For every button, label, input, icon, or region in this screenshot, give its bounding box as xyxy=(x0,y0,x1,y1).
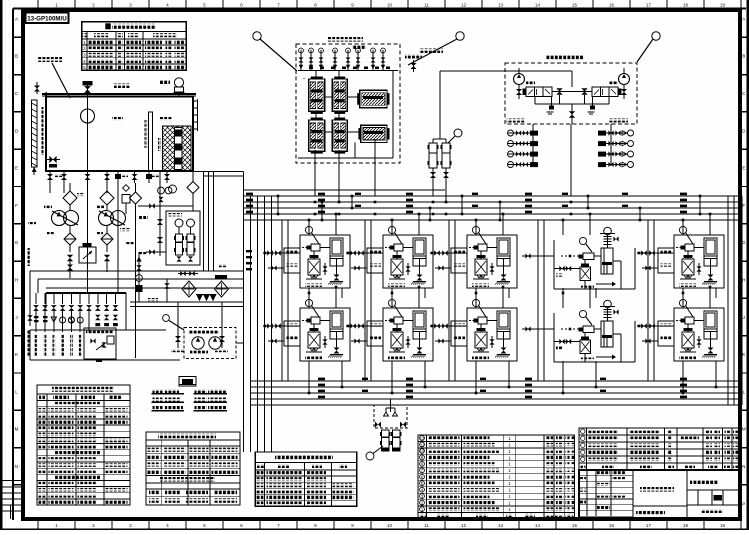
gauge G2 xyxy=(187,219,195,227)
charging pump unit M4 xyxy=(332,120,347,151)
gauge G1 xyxy=(175,219,183,227)
cluster U4 relief wire xyxy=(596,283,614,285)
svg-text:17: 17 xyxy=(646,523,651,528)
cluster U2 leader circle xyxy=(388,226,395,233)
charging pump unit M3 xyxy=(309,120,325,151)
accumulator isolation valves xyxy=(430,172,436,178)
cluster U3 solenoid box xyxy=(451,248,467,273)
leader label (1)(2)(3) xyxy=(38,57,62,62)
cluster U7 relief valve xyxy=(405,339,410,344)
cluster U8 drain valve xyxy=(501,348,507,354)
accumulator sub-station box xyxy=(166,211,200,265)
bus inter-drops xyxy=(277,196,279,214)
cluster U7 main control valve xyxy=(391,332,403,348)
distribution manifold valves xyxy=(35,293,37,304)
cluster U10 main control valve xyxy=(682,332,694,348)
cluster U8 relief valve xyxy=(489,339,494,344)
cluster column risers xyxy=(308,288,310,308)
charging station header line xyxy=(298,70,398,72)
bill of materials left xyxy=(418,435,575,519)
cluster U4 open frame xyxy=(553,240,555,289)
auxiliary pump box (dashed) xyxy=(184,328,236,359)
cluster U10 solenoid box xyxy=(658,321,674,346)
cluster U7 solenoid box xyxy=(367,321,383,346)
cluster U5 solenoid box xyxy=(658,248,674,273)
cluster U10 inlet valves xyxy=(637,325,674,327)
signal list table xyxy=(255,452,357,506)
svg-text:13: 13 xyxy=(498,523,503,528)
cluster U4 riser drops xyxy=(562,220,564,235)
cluster U1 solenoid box xyxy=(284,248,300,273)
cluster U6 leader circle xyxy=(305,299,312,306)
cluster U9 open frame xyxy=(553,313,555,362)
cluster U1 drain valve xyxy=(334,275,340,281)
cluster U10 inlet lower xyxy=(642,340,658,342)
legend note box xyxy=(179,377,196,387)
pump labels xyxy=(44,205,52,208)
cluster U1 internal wires xyxy=(313,251,315,259)
EH drain symbols xyxy=(549,106,554,110)
cluster U4 label xyxy=(581,285,594,288)
EH station label xyxy=(546,55,584,60)
left wall instrument stack xyxy=(27,315,33,321)
svg-text:14: 14 xyxy=(535,523,540,528)
station outlet wires xyxy=(314,150,316,196)
wire risers mid xyxy=(203,171,205,271)
svg-text:F: F xyxy=(742,203,745,208)
tank right wall stubs xyxy=(193,100,198,102)
cluster U2 inlet lower xyxy=(351,267,367,269)
cluster U8 inlet valves xyxy=(430,325,467,327)
EH collector line xyxy=(535,103,609,105)
cluster U4 inlet valves xyxy=(522,255,554,257)
equipment table lower xyxy=(146,475,240,477)
svg-text:N: N xyxy=(742,464,745,469)
cluster U9 relief wire xyxy=(596,356,614,358)
svg-text:12: 12 xyxy=(420,436,425,441)
cluster U6 drain valve xyxy=(334,348,340,354)
cluster U8 main control valve xyxy=(475,332,487,348)
check valve V2 xyxy=(101,233,113,245)
assembly check valves xyxy=(384,412,398,416)
drawing title text xyxy=(640,487,674,492)
charging station box (dashed) xyxy=(296,44,400,163)
accumulator leader circle xyxy=(454,129,462,137)
station internal wires xyxy=(347,96,360,98)
assembly side valves xyxy=(375,422,381,428)
svg-text:M: M xyxy=(15,427,19,432)
EH instrument rows right xyxy=(598,131,606,136)
cluster U3 drain valve xyxy=(501,275,507,281)
EH valve VB xyxy=(621,89,627,95)
cluster U3 inlet lower xyxy=(435,267,451,269)
cluster U1 inlet lower xyxy=(268,267,284,269)
relief valve RV2 xyxy=(67,255,73,261)
drain valve left xyxy=(49,156,56,163)
tank outlet valves xyxy=(49,171,51,183)
EH flank valves xyxy=(556,88,562,94)
svg-text:N: N xyxy=(15,464,18,469)
cluster U5 label xyxy=(679,284,696,287)
cluster U9 leader circle xyxy=(579,310,586,317)
cluster U2 riser drops xyxy=(391,220,393,235)
bus partial line xyxy=(244,189,446,191)
cluster U7 internal wires xyxy=(396,324,398,332)
svg-text:19: 19 xyxy=(720,523,725,528)
svg-text:10: 10 xyxy=(387,523,392,528)
cluster U10 pilot valve xyxy=(685,317,694,324)
cluster U2 solenoid box xyxy=(367,248,383,273)
tank-to-bus link wires xyxy=(193,171,244,173)
cluster U9 pilot valve xyxy=(583,326,594,333)
svg-text:H: H xyxy=(15,278,18,283)
actuator cluster U3 box xyxy=(467,235,517,288)
svg-text:L: L xyxy=(15,389,18,394)
cluster U8 internal wires xyxy=(480,324,482,332)
level gauge LG1 xyxy=(32,100,38,167)
cluster U6 servo cylinder xyxy=(330,311,343,339)
cluster U3 leader circle xyxy=(472,226,479,233)
cluster U3 internal wires xyxy=(480,251,482,259)
cluster U10 leader circle xyxy=(679,299,686,306)
cluster U7 servo cylinder xyxy=(413,311,426,339)
cluster U6 inlet lower xyxy=(268,340,284,342)
gauge group mid xyxy=(158,187,165,194)
cluster U1 main control valve xyxy=(308,259,320,275)
drain items xyxy=(164,283,170,289)
manifold drain valves xyxy=(95,315,100,320)
cluster U6 internal wires xyxy=(313,324,315,332)
left lower wires xyxy=(45,293,47,308)
svg-text:10: 10 xyxy=(387,3,392,8)
cluster U10 drain valve xyxy=(708,348,714,354)
cluster U1 servo cylinder xyxy=(330,238,343,266)
accumulator group label xyxy=(419,49,443,54)
cluster U10 label xyxy=(679,357,696,360)
EH instrument column links xyxy=(532,124,534,166)
cluster U3 main control valve xyxy=(475,259,487,275)
valve pair under xyxy=(180,271,186,277)
cluster U6 pilot valve xyxy=(311,317,320,324)
svg-text:G: G xyxy=(742,240,746,245)
accumulator AC1 xyxy=(429,143,437,168)
check valve V1 xyxy=(64,233,76,245)
station leader circle 1 xyxy=(253,32,261,40)
accumulator A2 xyxy=(187,234,194,255)
cluster U7 label xyxy=(388,357,405,360)
svg-text:18: 18 xyxy=(683,3,688,8)
cluster U8 inlet lower xyxy=(435,340,451,342)
EH station box (dashed) xyxy=(505,63,637,124)
isolation valves row xyxy=(157,219,163,225)
shut-off valve on tank top xyxy=(84,86,91,93)
svg-text:J: J xyxy=(743,315,745,320)
cooler unit E1 xyxy=(360,90,387,108)
charging station label xyxy=(327,37,363,42)
cluster U2 drain valve xyxy=(417,275,423,281)
accumulator safety valve label xyxy=(405,54,422,59)
svg-text:E: E xyxy=(742,166,745,171)
cluster U6 solenoid box xyxy=(284,321,300,346)
actuator cluster U10 box xyxy=(674,308,724,361)
cluster U5 internal wires xyxy=(687,251,689,259)
oil tank T1 xyxy=(42,93,196,95)
svg-text:L: L xyxy=(743,389,746,394)
pilot operated valves pair xyxy=(175,336,181,342)
bypass filter box xyxy=(122,195,130,204)
technical data table xyxy=(37,385,130,505)
cluster U6 inlet valves xyxy=(263,325,300,327)
cluster U5 riser drops xyxy=(682,220,684,235)
cluster U4 standpipe valve xyxy=(604,227,612,235)
cluster U5 drain valve xyxy=(708,275,714,281)
svg-text:11: 11 xyxy=(420,442,425,447)
bus mid labels xyxy=(355,193,361,195)
tank label xyxy=(114,84,130,89)
cluster U1 pilot valve xyxy=(311,244,320,251)
actuator cluster U7 box xyxy=(383,308,433,361)
assembly accumulator 1 xyxy=(382,430,390,448)
return filter block xyxy=(163,126,192,171)
cluster U9 internal wires xyxy=(594,328,601,330)
cluster U2 servo cylinder xyxy=(413,238,426,266)
manifold port id text xyxy=(35,334,38,356)
cluster U9 main valve xyxy=(580,340,591,354)
EH port stubs xyxy=(507,119,526,123)
title block signature grid xyxy=(579,475,633,477)
assembly leader circle xyxy=(366,452,374,460)
aux leader circle xyxy=(163,315,170,322)
cluster U8 servo cylinder xyxy=(497,311,510,339)
cluster U4 main valve xyxy=(580,267,591,281)
svg-text:P: P xyxy=(742,501,745,506)
cluster U7 pilot valve xyxy=(394,317,403,324)
wire EH supply xyxy=(439,71,441,139)
EH valve VA xyxy=(516,89,522,95)
cluster U3 riser drops xyxy=(475,220,477,235)
svg-text:13: 13 xyxy=(498,3,503,8)
main pressure bus lines xyxy=(243,195,742,197)
svg-text:12: 12 xyxy=(461,523,466,528)
wire lower cross xyxy=(130,301,243,303)
cluster U4 internal wires xyxy=(594,255,601,257)
cluster U8 leader circle xyxy=(472,299,479,306)
accumulator A1 xyxy=(176,234,183,255)
cluster U9 inlet valves xyxy=(522,328,554,330)
cluster U9 label xyxy=(581,358,594,361)
equipment table upper xyxy=(146,432,240,505)
EH leader circle xyxy=(652,32,660,40)
svg-text:J: J xyxy=(15,315,17,320)
check valves triple xyxy=(196,295,202,301)
cluster U2 relief valve xyxy=(405,266,410,271)
svg-text:16: 16 xyxy=(609,3,614,8)
EH pump PB xyxy=(619,74,630,85)
suction strainer xyxy=(81,109,95,123)
drawing number box xyxy=(26,13,69,24)
cluster U5 main control valve xyxy=(682,259,694,275)
EH center drain valve xyxy=(571,104,573,124)
tank baffle xyxy=(149,112,153,171)
cluster U10 riser drops xyxy=(682,293,684,308)
svg-text:15: 15 xyxy=(572,3,577,8)
cluster U8 solenoid box xyxy=(451,321,467,346)
EH directional valve left xyxy=(526,87,552,97)
EH instrument rows left xyxy=(508,130,514,136)
cluster U9 servo cylinder xyxy=(601,321,613,347)
cluster U9 riser drops xyxy=(562,293,564,308)
cluster U1 leader circle xyxy=(305,226,312,233)
cluster U7 riser drops xyxy=(391,293,393,308)
return bus lines xyxy=(250,380,742,382)
svg-text:17: 17 xyxy=(646,3,651,8)
cluster U6 riser drops xyxy=(308,293,310,308)
EH riser to bus xyxy=(570,124,572,196)
charging station inlet valves xyxy=(300,50,302,71)
cluster U1 relief valve xyxy=(322,266,327,271)
cluster U2 inlet valves xyxy=(346,252,383,254)
svg-text:F: F xyxy=(15,203,18,208)
cluster U5 relief valve xyxy=(696,266,701,271)
svg-text:13-GP100M/U: 13-GP100M/U xyxy=(27,16,67,23)
svg-text:B: B xyxy=(15,54,18,59)
cluster U8 riser drops xyxy=(475,293,477,308)
svg-text:15: 15 xyxy=(572,523,577,528)
cluster U4 servo cylinder xyxy=(601,248,613,274)
inter-cluster verticals xyxy=(281,220,283,381)
legend note rows xyxy=(153,389,163,393)
cluster U5 leader circle xyxy=(679,226,686,233)
EH center feed xyxy=(440,70,572,72)
nitrogen accumulator assembly (dashed) xyxy=(374,405,407,428)
title block right cells xyxy=(687,489,740,491)
actuator cluster U6 box xyxy=(300,308,350,361)
cluster U5 servo cylinder xyxy=(704,238,717,266)
cluster U3 pilot valve xyxy=(478,244,487,251)
cluster U4 leader circle xyxy=(579,237,586,244)
vent valve xyxy=(34,86,40,92)
relief valve block RV1 xyxy=(79,247,96,263)
cluster U3 label xyxy=(472,284,489,287)
bus labels xyxy=(246,193,253,196)
cluster U6 relief valve xyxy=(322,339,327,344)
cluster U8 pilot valve xyxy=(478,317,487,324)
cluster U2 label xyxy=(388,284,405,287)
svg-text:M: M xyxy=(742,427,746,432)
cluster U4 pilot valve xyxy=(583,253,594,260)
bus junction dots xyxy=(314,201,317,204)
svg-text:19: 19 xyxy=(720,3,725,8)
EH directional valve right xyxy=(592,87,618,97)
revision table lines xyxy=(0,480,23,482)
cluster U5 inlet lower xyxy=(642,267,658,269)
cluster U2 main control valve xyxy=(391,259,403,275)
suction filters F1 F2 F3 xyxy=(63,191,77,205)
wire manifold feed xyxy=(46,292,126,294)
cluster U10 servo cylinder xyxy=(704,311,717,339)
cluster U5 inlet valves xyxy=(637,252,674,254)
svg-text:14: 14 xyxy=(535,3,540,8)
cluster U1 inlet valves xyxy=(263,252,300,254)
cluster U1 riser drops xyxy=(308,220,310,235)
cluster U3 servo cylinder xyxy=(497,238,510,266)
cluster U9 inline valves xyxy=(559,339,564,344)
main pump unit P1 xyxy=(52,211,67,226)
cluster U6 label xyxy=(305,357,322,360)
air breather FB1 xyxy=(174,78,183,87)
svg-text:E: E xyxy=(15,166,18,171)
relief valve RV3 xyxy=(104,255,110,261)
cluster U7 inlet valves xyxy=(346,325,383,327)
svg-text:H: H xyxy=(742,278,745,283)
cluster U2 pilot valve xyxy=(394,244,403,251)
svg-text:10: 10 xyxy=(420,449,425,454)
svg-text:11: 11 xyxy=(424,523,429,528)
actuator cluster U5 box xyxy=(674,235,724,288)
actuator cluster U1 box xyxy=(300,235,350,288)
station leader circle 2 xyxy=(456,32,464,40)
unloading valve stack xyxy=(136,256,141,261)
cluster U3 inlet valves xyxy=(430,252,467,254)
cluster U7 leader circle xyxy=(388,299,395,306)
cluster U9 standpipe valve xyxy=(604,300,612,308)
title block xyxy=(579,470,740,520)
cluster U5 pilot valve xyxy=(685,244,694,251)
fitting labels bus entries xyxy=(246,250,252,252)
assembly accumulator 2 xyxy=(393,430,401,448)
small integrated block xyxy=(84,328,116,359)
legend table xyxy=(82,22,187,71)
cluster U7 drain valve xyxy=(417,348,423,354)
cluster U7 inlet lower xyxy=(351,340,367,342)
svg-text:12: 12 xyxy=(461,3,466,8)
left feeder risers xyxy=(243,196,245,452)
cluster U3 relief valve xyxy=(489,266,494,271)
bill of materials right xyxy=(579,428,740,470)
flow control diamonds xyxy=(182,281,196,297)
cluster U2 internal wires xyxy=(396,251,398,259)
actuator cluster U2 box xyxy=(383,235,433,288)
svg-text:18: 18 xyxy=(683,523,688,528)
charging pump unit M2 xyxy=(332,79,347,111)
right edge risers xyxy=(727,196,729,405)
cluster U10 relief valve xyxy=(696,339,701,344)
cluster U10 internal wires xyxy=(687,324,689,332)
svg-text:11: 11 xyxy=(424,3,429,8)
svg-text:G: G xyxy=(15,240,19,245)
cluster U4 inline valves xyxy=(559,266,564,271)
cluster U1 label xyxy=(305,284,322,287)
svg-text:B: B xyxy=(742,54,745,59)
main pump unit P2 xyxy=(99,211,114,226)
cluster U8 label xyxy=(472,357,489,360)
EH pump PA xyxy=(514,74,525,85)
charging pump unit M1 xyxy=(309,79,325,111)
cooler unit E2 xyxy=(361,125,387,142)
cluster U6 main control valve xyxy=(308,332,320,348)
manifold gauge symbols xyxy=(34,316,39,318)
accumulator AC2 xyxy=(442,143,450,168)
wire header lines xyxy=(30,270,243,272)
valve V3 xyxy=(67,265,73,271)
svg-text:16: 16 xyxy=(609,523,614,528)
actuator cluster U8 box xyxy=(467,308,517,361)
